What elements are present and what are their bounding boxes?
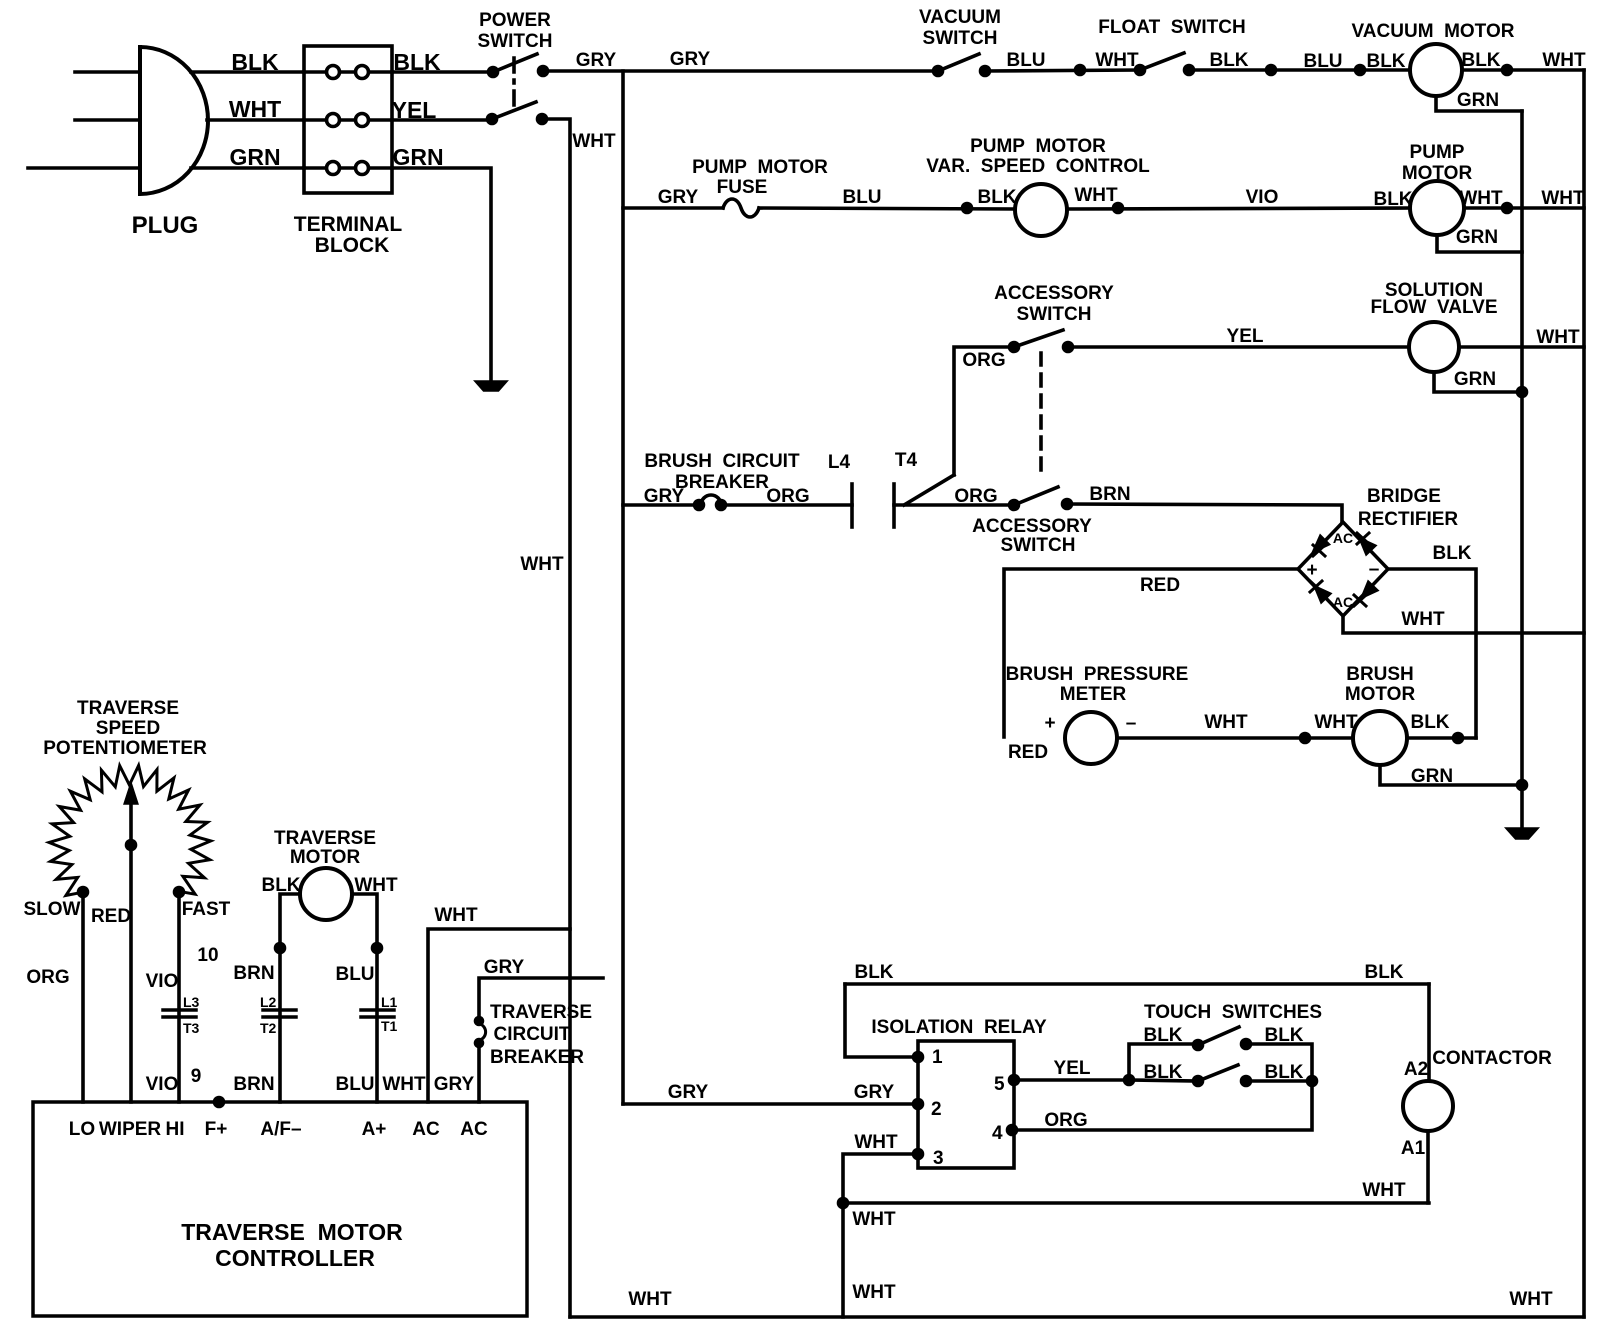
svg-text:SWITCH: SWITCH xyxy=(478,31,553,52)
svg-text:GRN: GRN xyxy=(392,144,443,170)
accessory switch S5 lower xyxy=(1010,501,1019,510)
svg-text:ORG: ORG xyxy=(962,350,1005,371)
TB1 row1 wire xyxy=(304,70,392,74)
pin 1 xyxy=(914,1053,923,1062)
svg-text:1: 1 xyxy=(932,1047,943,1068)
wire WHT pin 3 xyxy=(843,1154,918,1203)
svg-text:BLK: BLK xyxy=(977,187,1016,208)
wire BLU vac switch to float switch xyxy=(985,70,1140,71)
wire contactor A1 to WHT xyxy=(1426,1131,1430,1203)
svg-text:WHT: WHT xyxy=(1204,712,1248,733)
svg-text:ORG: ORG xyxy=(1044,1110,1087,1131)
wire WHT AC to bus xyxy=(428,929,570,1102)
svg-text:WHT: WHT xyxy=(382,1074,426,1095)
svg-text:BREAKER: BREAKER xyxy=(490,1047,584,1068)
GRY bus vertical xyxy=(621,71,625,1104)
svg-text:GRN: GRN xyxy=(1457,90,1499,111)
svg-text:A+: A+ xyxy=(362,1119,387,1140)
svg-text:BREAKER: BREAKER xyxy=(675,472,769,493)
svg-text:SWITCH: SWITCH xyxy=(923,28,998,49)
svg-text:WIPER: WIPER xyxy=(99,1119,162,1140)
svg-text:4: 4 xyxy=(992,1123,1003,1144)
node SLOW terminal xyxy=(79,888,88,897)
svg-text:GRY: GRY xyxy=(644,486,685,507)
svg-text:BLOCK: BLOCK xyxy=(315,234,390,257)
svg-text:POWER: POWER xyxy=(479,10,551,31)
svg-text:FLOW VALVE: FLOW VALVE xyxy=(1370,297,1497,318)
wire GRN plug left xyxy=(28,166,140,170)
svg-text:9: 9 xyxy=(191,1066,202,1087)
wire GRN vacuum motor xyxy=(1436,96,1522,111)
svg-text:VIO: VIO xyxy=(1246,187,1279,208)
bridge diode marks xyxy=(1313,545,1325,556)
svg-text:BRN: BRN xyxy=(233,963,274,984)
svg-text:BLK: BLK xyxy=(1143,1062,1182,1083)
svg-text:BLU: BLU xyxy=(1303,51,1342,72)
svg-text:F+: F+ xyxy=(205,1119,228,1140)
ground symbol left xyxy=(477,382,505,390)
pin 4 xyxy=(1008,1126,1017,1135)
svg-text:GRY: GRY xyxy=(434,1074,475,1095)
svg-text:BLU: BLU xyxy=(335,964,374,985)
svg-text:GRY: GRY xyxy=(658,187,699,208)
svg-text:10: 10 xyxy=(197,945,218,966)
wire GRN brush motor xyxy=(1380,765,1522,785)
svg-text:T3: T3 xyxy=(183,1020,200,1036)
svg-text:VACUUM MOTOR: VACUUM MOTOR xyxy=(1352,21,1515,42)
wire GRY brush row start xyxy=(623,503,699,507)
svg-text:ORG: ORG xyxy=(954,486,997,507)
node: power switch top output to GRY bus xyxy=(543,69,938,73)
svg-text:GRY: GRY xyxy=(668,1082,709,1103)
riser diagonal xyxy=(904,475,954,505)
svg-text:–: – xyxy=(1126,713,1137,734)
svg-text:BLK: BLK xyxy=(1461,50,1500,71)
svg-text:FAST: FAST xyxy=(182,899,231,920)
wire GRN plug to terminal block xyxy=(191,166,304,170)
svg-text:BRUSH CIRCUIT: BRUSH CIRCUIT xyxy=(644,451,800,472)
svg-text:ORG: ORG xyxy=(26,967,69,988)
svg-text:TERMINAL: TERMINAL xyxy=(294,213,403,236)
svg-text:ISOLATION RELAY: ISOLATION RELAY xyxy=(871,1017,1047,1038)
wire BLK plug left xyxy=(75,70,140,74)
wire BRN switch to bridge xyxy=(1067,504,1342,522)
right edge WHT bus xyxy=(1582,70,1586,1317)
svg-text:HI: HI xyxy=(166,1119,185,1140)
svg-text:METER: METER xyxy=(1060,684,1127,705)
svg-text:ACCESSORY: ACCESSORY xyxy=(972,516,1092,537)
svg-text:WHT: WHT xyxy=(434,905,478,926)
GRN bus vertical xyxy=(1520,111,1524,829)
svg-text:GRY: GRY xyxy=(576,50,617,71)
svg-text:WHT: WHT xyxy=(1541,188,1585,209)
svg-text:GRN: GRN xyxy=(229,144,280,170)
wire GRY bus to pin 2 xyxy=(623,1102,918,1106)
svg-text:VAR. SPEED CONTROL: VAR. SPEED CONTROL xyxy=(926,156,1150,177)
wire BLK plug to terminal block xyxy=(191,70,304,74)
svg-text:+: + xyxy=(1044,713,1055,734)
svg-text:WHT: WHT xyxy=(854,1132,898,1153)
wire BLK vacuum motor to right edge xyxy=(1462,68,1584,72)
potentiometer wiper arrow xyxy=(129,798,133,1102)
riser wire ORG xyxy=(954,347,1014,475)
svg-text:LO: LO xyxy=(69,1119,95,1140)
svg-text:WHT: WHT xyxy=(229,96,281,122)
svg-text:WHT: WHT xyxy=(1542,50,1586,71)
svg-text:BLK: BLK xyxy=(1373,189,1412,210)
svg-text:ORG: ORG xyxy=(766,486,809,507)
svg-text:PUMP MOTOR: PUMP MOTOR xyxy=(970,136,1106,157)
wire GRY pump row start xyxy=(623,206,723,210)
svg-text:2: 2 xyxy=(931,1099,942,1120)
wire BLK to contactor A2 xyxy=(1427,984,1431,1081)
svg-text:AC: AC xyxy=(1333,594,1353,610)
svg-text:L2: L2 xyxy=(260,994,277,1010)
svg-text:TRAVERSE: TRAVERSE xyxy=(77,698,179,719)
svg-text:GRY: GRY xyxy=(854,1082,895,1103)
wire VIO speed control to pump motor xyxy=(1067,208,1410,209)
ground symbol right xyxy=(1508,829,1536,838)
wire ORG slow to controller xyxy=(81,892,85,1102)
wire WHT pump motor to right edge xyxy=(1464,206,1584,210)
traverse motor controller box xyxy=(33,1102,527,1316)
wire BLU traverse motor right to controller xyxy=(352,894,377,1102)
svg-text:PUMP MOTOR: PUMP MOTOR xyxy=(692,157,828,178)
svg-text:WHT: WHT xyxy=(520,554,564,575)
svg-text:CIRCUIT: CIRCUIT xyxy=(493,1024,570,1045)
svg-text:WHT: WHT xyxy=(1074,185,1118,206)
svg-text:BLU: BLU xyxy=(842,187,881,208)
svg-text:BLK: BLK xyxy=(1209,50,1248,71)
capacitor C3 L3/T3 xyxy=(163,1010,196,1017)
svg-text:WHT: WHT xyxy=(1509,1289,1553,1310)
TB1 terminal circles xyxy=(327,66,369,175)
TB1 row3 wire xyxy=(304,166,392,170)
svg-text:BRUSH PRESSURE: BRUSH PRESSURE xyxy=(1006,664,1189,685)
wire ORG T4 to accessory switch lower xyxy=(894,503,1014,507)
TB1 row2 wire xyxy=(304,118,392,122)
terminal block TB1 xyxy=(304,46,392,193)
gang link dashed xyxy=(1039,353,1043,479)
node FAST terminal xyxy=(175,888,184,897)
svg-text:BLK: BLK xyxy=(1264,1025,1303,1046)
svg-text:BLK: BLK xyxy=(1364,962,1403,983)
svg-text:BLU: BLU xyxy=(335,1074,374,1095)
touch switch upper branch xyxy=(1129,1044,1198,1080)
svg-text:SPEED: SPEED xyxy=(96,718,160,739)
wire GRN to ground xyxy=(392,168,491,382)
svg-text:TRAVERSE MOTOR: TRAVERSE MOTOR xyxy=(181,1219,403,1245)
pin 3 xyxy=(914,1150,923,1159)
svg-text:BLU: BLU xyxy=(1006,50,1045,71)
svg-text:L4: L4 xyxy=(828,452,851,473)
wire TB to power switch bottom xyxy=(392,118,492,122)
svg-text:3: 3 xyxy=(933,1148,944,1169)
wire VIO fast to controller xyxy=(177,892,181,1102)
pin 5 xyxy=(1010,1076,1019,1085)
svg-text:T2: T2 xyxy=(260,1020,277,1036)
svg-text:ACCESSORY: ACCESSORY xyxy=(994,283,1114,304)
svg-text:WHT: WHT xyxy=(1536,327,1580,348)
capacitor C2 L2/T2 xyxy=(263,1010,296,1017)
svg-text:AC: AC xyxy=(460,1119,488,1140)
svg-text:BLK: BLK xyxy=(1264,1062,1303,1083)
svg-text:POTENTIOMETER: POTENTIOMETER xyxy=(43,738,207,759)
svg-text:A1: A1 xyxy=(1401,1138,1426,1159)
touch switch lower branch xyxy=(1129,1080,1198,1081)
wire ORG pin 4 to touch switches xyxy=(1012,1081,1312,1130)
svg-text:TRAVERSE: TRAVERSE xyxy=(490,1002,592,1023)
power switch gang link (dash-dot) xyxy=(512,58,516,108)
svg-text:YEL: YEL xyxy=(1227,326,1264,347)
pin 2 xyxy=(914,1100,923,1109)
wire RED bridge to meter xyxy=(1004,569,1298,737)
svg-text:T1: T1 xyxy=(381,1018,398,1034)
svg-text:VIO: VIO xyxy=(146,1074,179,1095)
svg-text:PUMP: PUMP xyxy=(1410,142,1465,163)
svg-text:–: – xyxy=(1369,559,1380,580)
wire WHT bottom long xyxy=(843,1201,1429,1205)
svg-text:SWITCH: SWITCH xyxy=(1017,304,1092,325)
svg-text:GRN: GRN xyxy=(1454,369,1496,390)
wire WHT bridge output to right edge xyxy=(1343,616,1584,633)
svg-text:FUSE: FUSE xyxy=(717,177,768,198)
wire WHT plug left xyxy=(75,118,140,122)
svg-text:CONTROLLER: CONTROLLER xyxy=(215,1245,375,1271)
wire WHT down to bottom line xyxy=(841,1203,845,1317)
svg-text:BRN: BRN xyxy=(233,1074,274,1095)
wire GRY AC riser xyxy=(479,978,603,1102)
svg-text:WHT: WHT xyxy=(1459,188,1503,209)
svg-text:L1: L1 xyxy=(381,994,398,1010)
svg-text:BLK: BLK xyxy=(1410,712,1449,733)
wire WHT meter to brush motor xyxy=(1117,736,1353,740)
plug P1 xyxy=(140,47,208,194)
wire BLK down to pin 1 xyxy=(845,984,918,1057)
svg-text:VACUUM: VACUUM xyxy=(919,7,1001,28)
wire WHT plug to terminal block xyxy=(207,118,304,122)
svg-text:A/F–: A/F– xyxy=(260,1119,301,1140)
svg-text:WHT: WHT xyxy=(852,1209,896,1230)
svg-text:SWITCH: SWITCH xyxy=(1001,535,1076,556)
svg-text:TOUCH SWITCHES: TOUCH SWITCHES xyxy=(1144,1002,1322,1023)
svg-text:WHT: WHT xyxy=(1095,50,1139,71)
wire BLK brush motor xyxy=(1407,736,1476,740)
svg-text:BLK: BLK xyxy=(1432,543,1471,564)
svg-text:WHT: WHT xyxy=(628,1289,672,1310)
svg-text:WHT: WHT xyxy=(1401,609,1445,630)
wire YEL switch to flow valve xyxy=(1068,345,1409,349)
wire WHT flow valve to right edge xyxy=(1459,345,1584,349)
svg-text:BLK: BLK xyxy=(231,49,279,75)
power switch top pole xyxy=(489,68,498,77)
traverse circuit breaker CB2 xyxy=(476,1018,483,1025)
svg-text:T4: T4 xyxy=(895,450,918,471)
svg-text:BRUSH: BRUSH xyxy=(1346,664,1414,685)
svg-text:RECTIFIER: RECTIFIER xyxy=(1358,509,1459,530)
svg-text:L3: L3 xyxy=(183,994,200,1010)
svg-text:MOTOR: MOTOR xyxy=(1345,684,1416,705)
bottom WHT line xyxy=(570,1315,1584,1319)
svg-text:5: 5 xyxy=(994,1074,1005,1095)
svg-text:WHT: WHT xyxy=(1314,712,1358,733)
svg-text:BRN: BRN xyxy=(1089,484,1130,505)
wire BLK bridge output xyxy=(1388,569,1476,738)
svg-text:FLOAT SWITCH: FLOAT SWITCH xyxy=(1098,17,1245,38)
svg-text:BLK: BLK xyxy=(854,962,893,983)
wire BLK isolation relay feed xyxy=(845,982,1429,986)
svg-text:BRIDGE: BRIDGE xyxy=(1367,486,1441,507)
svg-text:SLOW: SLOW xyxy=(24,899,81,920)
svg-text:RED: RED xyxy=(91,906,131,927)
svg-text:GRY: GRY xyxy=(670,49,711,70)
svg-text:BLK: BLK xyxy=(1366,51,1405,72)
svg-text:YEL: YEL xyxy=(1054,1058,1091,1079)
svg-text:+: + xyxy=(1306,560,1317,581)
wire GRN pump motor xyxy=(1437,235,1522,252)
svg-text:GRN: GRN xyxy=(1456,227,1498,248)
svg-text:VIO: VIO xyxy=(146,971,179,992)
wire WHT from power switch to WHT bus xyxy=(542,119,570,1317)
svg-text:WHT: WHT xyxy=(572,131,616,152)
svg-text:AC: AC xyxy=(1333,530,1353,546)
svg-text:PLUG: PLUG xyxy=(132,212,199,239)
node splice xyxy=(1076,66,1085,75)
svg-text:GRY: GRY xyxy=(484,957,525,978)
wire TB to power switch top xyxy=(392,70,493,74)
svg-text:WHT: WHT xyxy=(1362,1180,1406,1201)
svg-text:A2: A2 xyxy=(1404,1059,1428,1080)
capacitor C1 L1/T1 xyxy=(361,1010,394,1017)
wire YEL pin 5 to touch switches xyxy=(1014,1078,1129,1082)
svg-text:TRAVERSE: TRAVERSE xyxy=(274,828,376,849)
wire BRN traverse motor left to controller xyxy=(280,894,300,1102)
svg-text:CONTACTOR: CONTACTOR xyxy=(1432,1048,1552,1069)
svg-text:GRN: GRN xyxy=(1411,766,1453,787)
power switch bottom pole xyxy=(488,115,497,124)
svg-text:MOTOR: MOTOR xyxy=(290,847,361,868)
wire BLK float switch to vacuum motor xyxy=(1189,68,1410,72)
wire BLU fuse to speed control xyxy=(759,208,1015,209)
svg-text:AC: AC xyxy=(412,1119,440,1140)
svg-text:WHT: WHT xyxy=(852,1282,896,1303)
svg-text:RED: RED xyxy=(1140,575,1180,596)
svg-text:BLK: BLK xyxy=(1143,1025,1182,1046)
wire ORG breaker to L4 xyxy=(721,503,852,507)
svg-text:RED: RED xyxy=(1008,742,1048,763)
wire GRN flow valve xyxy=(1434,372,1522,392)
